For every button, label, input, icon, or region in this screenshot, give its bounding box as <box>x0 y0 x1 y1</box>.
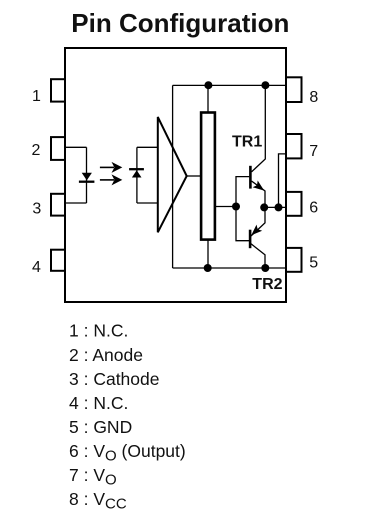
transistor TR1 collector <box>252 85 266 171</box>
svg-text:3 : Cathode: 3 : Cathode <box>69 369 159 389</box>
wire LED vertical <box>86 147 88 203</box>
svg-text:4: 4 <box>32 259 41 276</box>
wire output node to pin6 <box>264 206 286 208</box>
LED D1 cathode bar <box>79 181 95 183</box>
pin 4 stub <box>51 250 65 271</box>
svg-text:5: 5 <box>309 254 318 271</box>
Vcc top rail <box>173 84 286 86</box>
photodiode PD vertical wire <box>136 147 138 203</box>
wire resistor to base node <box>215 206 236 208</box>
pin 3 stub <box>51 194 65 216</box>
op-amp U1 triangle <box>158 117 187 232</box>
LED D1 triangle <box>82 173 92 181</box>
light arrow lower <box>100 174 122 185</box>
junction dot top rail left <box>204 81 212 89</box>
photodiode PD triangle <box>132 170 142 177</box>
pin 5 stub <box>286 248 302 272</box>
svg-text:2: 2 <box>32 142 41 159</box>
svg-text:8: 8 <box>309 89 318 106</box>
svg-text:TR1: TR1 <box>232 133 262 150</box>
svg-text:7: 7 <box>309 143 318 160</box>
wire photodiode bottom to amp <box>137 202 158 204</box>
transistor TR1 emitter arrow <box>253 181 265 191</box>
junction dot output node left <box>260 203 268 211</box>
photodiode PD cathode bar <box>129 168 144 170</box>
transistor TR2 base bar <box>249 230 252 249</box>
wire amp output to resistor <box>187 175 201 177</box>
wire base node to TR2 base <box>236 207 249 241</box>
svg-text:5 : GND: 5 : GND <box>69 417 132 437</box>
wire base node to TR1 base <box>236 177 249 207</box>
pin 8 stub <box>286 77 302 102</box>
transistor TR2 collector <box>251 244 265 268</box>
svg-text:Pin Configuration: Pin Configuration <box>71 8 289 38</box>
transistor TR2 emitter <box>251 207 265 236</box>
GND bottom rail <box>173 267 286 269</box>
transistor TR1 emitter <box>252 181 266 207</box>
resistor R1 <box>201 113 215 240</box>
transistor TR2 emitter arrow <box>251 225 262 236</box>
wire resistor top to Vcc rail <box>207 85 209 113</box>
wire pin3 to LED cathode <box>66 202 87 204</box>
junction dot top rail right <box>261 81 269 89</box>
pin 2 stub <box>51 137 65 160</box>
transistor TR1 base bar <box>249 166 252 189</box>
junction dot output node right <box>275 203 283 211</box>
svg-text:3: 3 <box>32 201 41 218</box>
wire output node to pin7 <box>279 154 287 208</box>
svg-text:2 : Anode: 2 : Anode <box>69 345 143 365</box>
IC body outline <box>65 48 286 302</box>
svg-text:TR2: TR2 <box>252 276 282 293</box>
pin 6 stub <box>286 192 302 216</box>
wire resistor bottom to GND rail <box>207 239 209 268</box>
junction dot base node <box>232 203 240 211</box>
junction dot bottom rail right <box>261 264 269 272</box>
pin 1 stub <box>51 79 65 101</box>
svg-text:1 : N.C.: 1 : N.C. <box>69 321 128 341</box>
svg-text:4 : N.C.: 4 : N.C. <box>69 393 128 413</box>
svg-text:1: 1 <box>32 88 41 105</box>
wire photodiode top to amp <box>137 146 158 148</box>
pin 7 stub <box>286 134 302 158</box>
wire pin2 to LED anode <box>66 146 87 148</box>
svg-text:6: 6 <box>309 200 318 217</box>
junction dot bottom rail left <box>204 264 212 272</box>
light arrow upper <box>100 162 122 173</box>
supply wire vertical left <box>172 85 174 268</box>
